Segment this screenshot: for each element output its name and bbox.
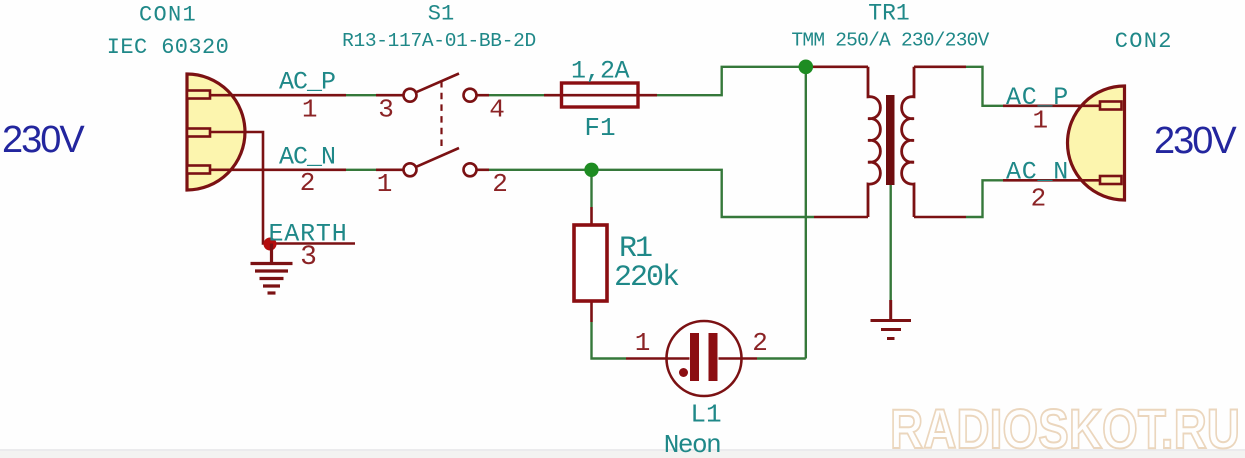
wire vertical lamp to top junction [805, 67, 807, 359]
transformer TR1 primary winding [868, 67, 880, 217]
ground chassis below transformer [871, 300, 912, 339]
wire junction to R1 [590, 170, 592, 207]
pin lead CON1 pin3 earth [210, 132, 355, 244]
svg-text:CON2: CON2 [1115, 29, 1173, 54]
transformer TR1 core [886, 95, 895, 185]
svg-text:2: 2 [752, 328, 768, 358]
wire AC_N CON1 to switch [346, 169, 376, 171]
switch S1 pole B [376, 148, 489, 176]
wire lamp to vertical [757, 357, 806, 359]
fuse F1 [544, 83, 657, 107]
pin lead CON2 pin2 [1003, 179, 1100, 182]
transformer TR1 primary top stub [813, 66, 868, 69]
pin lead CON2 pin1 [1003, 105, 1100, 108]
svg-text:TMM 250/A 230/230V: TMM 250/A 230/230V [791, 30, 989, 52]
wire secondary bottom to CON2 [966, 180, 1003, 217]
svg-text:TR1: TR1 [868, 1, 909, 27]
svg-text:3: 3 [378, 95, 394, 125]
svg-text:IEC 60320: IEC 60320 [107, 35, 229, 60]
svg-text:3: 3 [300, 242, 317, 273]
svg-text:4: 4 [489, 95, 505, 125]
svg-text:S1: S1 [428, 2, 454, 27]
switch S1 pole A [376, 74, 489, 102]
wire secondary top to CON2 [966, 67, 1003, 106]
transformer TR1 secondary winding [902, 67, 914, 217]
svg-text:2: 2 [300, 168, 316, 198]
svg-text:F1: F1 [584, 113, 615, 143]
bottom strip [0, 450, 1245, 458]
svg-text:1,2A: 1,2A [571, 57, 630, 86]
svg-text:2: 2 [492, 169, 508, 199]
wire transformer core ground [890, 182, 892, 300]
svg-text:1: 1 [635, 328, 651, 358]
svg-text:AC_N: AC_N [1006, 158, 1069, 187]
svg-text:1: 1 [302, 95, 318, 125]
pin lead CON1 pin1 [210, 94, 346, 97]
transformer TR1 primary bottom stub [814, 216, 868, 219]
wire AC_P CON1 to switch [346, 94, 376, 96]
neon lamp L1 [626, 321, 757, 396]
connector CON1 [187, 74, 245, 190]
pin lead CON1 pin2 [210, 169, 346, 172]
ground earth symbol [251, 244, 293, 294]
svg-text:L1: L1 [690, 400, 721, 430]
transformer TR1 secondary stubs [914, 66, 966, 69]
svg-text:230V: 230V [2, 119, 85, 161]
svg-text:1: 1 [1032, 106, 1048, 136]
node EARTH junction dot [264, 238, 277, 251]
svg-text:Neon: Neon [664, 430, 720, 458]
wire switch to transformer bottom [489, 170, 814, 217]
svg-text:220k: 220k [614, 261, 679, 295]
svg-text:RADIOSKOT.RU: RADIOSKOT.RU [890, 397, 1240, 458]
wire switch to fuse [489, 94, 544, 96]
switch S1 coupling dashed line [440, 81, 442, 151]
svg-text:1: 1 [377, 169, 393, 199]
wire fuse to corner [657, 67, 813, 95]
svg-text:230V: 230V [1154, 120, 1237, 162]
wire R1 to lamp [592, 322, 627, 359]
svg-text:CON1: CON1 [139, 3, 197, 28]
svg-text:AC_P: AC_P [279, 68, 335, 97]
resistor R1 [574, 207, 607, 322]
svg-text:2: 2 [1031, 184, 1047, 214]
junction dot top [799, 60, 814, 75]
connector CON2 [1068, 86, 1125, 200]
junction dot AC_N [584, 163, 598, 177]
svg-text:R13-117A-01-BB-2D: R13-117A-01-BB-2D [342, 30, 536, 52]
